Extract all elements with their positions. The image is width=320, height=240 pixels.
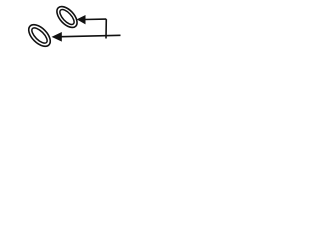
wire vertical [105, 19, 107, 38]
wire top [85, 18, 106, 20]
slip ring upper: outer ellipse [53, 3, 81, 31]
wire bottom [62, 35, 121, 36]
brush arrow upper [77, 15, 86, 24]
slip ring lower: outer ellipse [25, 21, 54, 50]
brush arrow lower [52, 32, 62, 42]
slip ring lower: inner ellipse [29, 25, 49, 45]
slip ring upper: inner ellipse [58, 7, 77, 26]
